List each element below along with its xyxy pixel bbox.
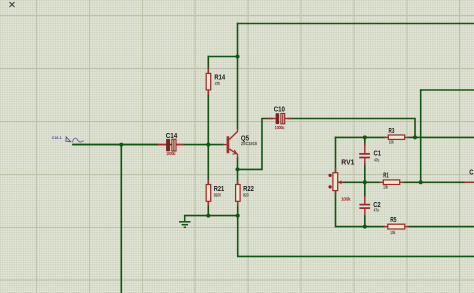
wire top rail [238, 23, 474, 25]
svg-text:47u: 47u [374, 207, 380, 212]
resistor R21 [206, 180, 224, 207]
wire top rail drop to node [237, 24, 239, 57]
svg-text:1000u: 1000u [275, 125, 285, 130]
wire R21 bottom [207, 201, 209, 215]
wire R14 bottom to base row to R21 [207, 90, 209, 185]
capacitor C14 [158, 133, 184, 156]
capacitor C? right edge [464, 170, 474, 183]
wire R3 row [336, 136, 386, 138]
svg-text:820: 820 [243, 192, 249, 197]
svg-text:C: C [469, 170, 473, 177]
svg-text:2SC1815: 2SC1815 [241, 141, 258, 146]
wire R3 right to edge [408, 136, 474, 138]
svg-text:R3: R3 [389, 128, 395, 135]
svg-text:R1: R1 [383, 173, 389, 180]
wire R14 top link [208, 57, 237, 129]
wire C1 top pin link [364, 137, 366, 145]
svg-text:C1: C1 [374, 150, 382, 157]
wire C1 bottom link [364, 164, 366, 182]
wire R14 column [207, 57, 209, 74]
svg-text:8200: 8200 [214, 192, 222, 197]
wire R5 right to edge [409, 226, 474, 228]
svg-text:470: 470 [215, 81, 221, 86]
wire C14 left [73, 144, 158, 146]
capacitor C1 [359, 143, 381, 166]
wire right long vertical [420, 90, 422, 182]
resistor R5 [384, 217, 410, 235]
generator probe C16-1 [52, 136, 84, 143]
svg-text:1000u: 1000u [166, 151, 175, 156]
svg-text:C14: C14 [166, 133, 178, 140]
resistor R1 [379, 173, 404, 190]
svg-text:47u: 47u [374, 157, 380, 162]
potentiometer RV1 [329, 159, 355, 201]
svg-text:RV1: RV1 [341, 159, 354, 166]
ground [179, 216, 191, 228]
svg-text:C16-1: C16-1 [52, 136, 62, 140]
wire emitter junction to C10 riser [238, 119, 273, 170]
origin marker x [10, 2, 15, 7]
wire R22 bottom to bottom rail [238, 201, 474, 256]
wire emitter column to R22 [237, 158, 239, 185]
svg-text:R5: R5 [390, 217, 396, 224]
capacitor C10 [268, 107, 292, 130]
transistor Q5 [223, 129, 258, 159]
wire RV1 bottom column to R5 row [336, 191, 385, 227]
resistor R14 [206, 68, 225, 95]
wire input row [73, 144, 223, 146]
resistor R22 [236, 180, 254, 207]
wire RV1 top column [335, 137, 337, 172]
wire C10 to R3 row drop [289, 119, 416, 138]
wire wiper R1 row [340, 181, 381, 183]
svg-text:10k: 10k [383, 185, 388, 190]
wire C2 top link from R1 row [364, 182, 366, 196]
resistor R3 [384, 128, 409, 145]
capacitor C2 [359, 196, 380, 216]
wire ground row [185, 215, 238, 217]
svg-text:C10: C10 [274, 107, 285, 114]
wire right y90 stub [421, 89, 474, 91]
svg-text:100k: 100k [341, 197, 351, 202]
svg-text:10k: 10k [389, 139, 394, 144]
wire R1 right segment [403, 181, 464, 183]
wire input drop down off sheet [120, 145, 122, 293]
wire C2 bottom link [364, 216, 366, 227]
svg-text:10k: 10k [390, 230, 395, 235]
